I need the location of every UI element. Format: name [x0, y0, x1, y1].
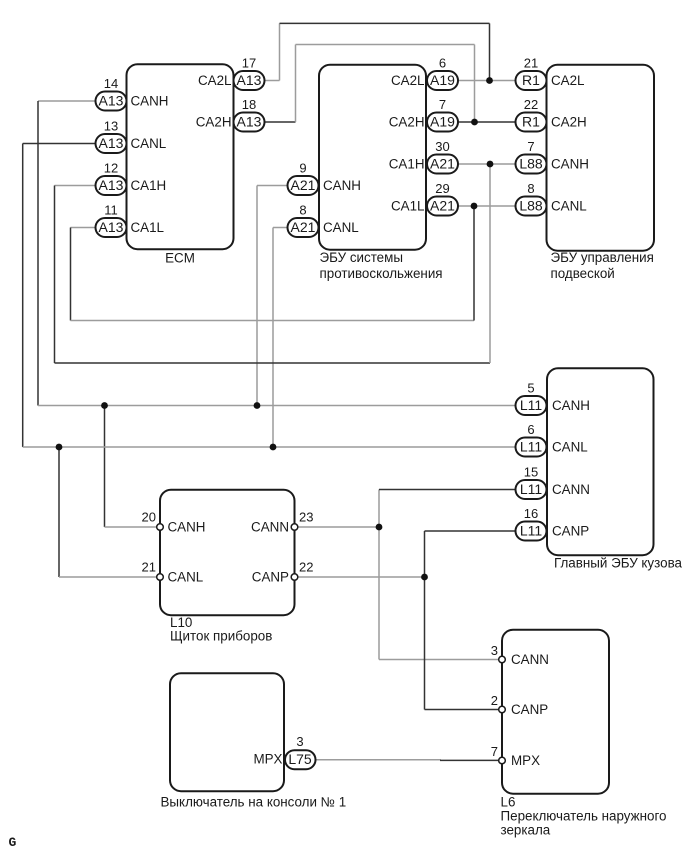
svg-text:L11: L11: [520, 397, 543, 413]
connector L75 pin3 console MPX: [285, 750, 316, 769]
connector A21 pin29 skid CA1L: [427, 197, 458, 216]
svg-text:CANN: CANN: [251, 520, 289, 535]
svg-text:противоскольжения: противоскольжения: [320, 266, 443, 281]
wire CA2L net: top horizontal run: [280, 22, 490, 24]
svg-text:A21: A21: [430, 198, 455, 214]
node junction CA2H row: [471, 119, 478, 126]
connector L11 pin5 body CANH: [516, 396, 547, 415]
svg-text:CANP: CANP: [252, 570, 289, 585]
node junction CA2L row: [486, 77, 493, 84]
connector A13 pin17 ECM CA2L: [234, 71, 265, 90]
svg-text:CANL: CANL: [168, 570, 204, 585]
wire CANL net: horizontal into L10 pin21: [59, 576, 160, 578]
wire CA1H net: lower horizontal run: [55, 362, 491, 364]
wire CA1L net: row skid pin29 to susp pin8: [458, 205, 516, 207]
instrument cluster L10 block: [160, 490, 295, 616]
suspension ECU block: [547, 65, 655, 251]
wire CA2L net: vertical up: [279, 23, 281, 80]
wire CANH net: horizontal into L10 pin20: [105, 526, 161, 528]
svg-text:2: 2: [491, 693, 498, 708]
wire CANP net: horizontal to body ECU pin16: [425, 530, 516, 532]
node junction CA1H row: [487, 161, 494, 168]
svg-text:Щиток приборов: Щиток приборов: [170, 629, 272, 644]
svg-text:18: 18: [242, 97, 256, 112]
svg-text:L11: L11: [520, 523, 543, 539]
node junction CANH/L10 branch: [101, 402, 108, 409]
node junction CANL/skid branch: [270, 444, 277, 451]
node junction CANH/skid branch: [254, 402, 261, 409]
connector A13 pin11 ECM CA1L: [96, 218, 127, 237]
svg-text:A19: A19: [430, 114, 455, 130]
svg-text:R1: R1: [522, 72, 540, 88]
pin circle L6 pin7 MPX: [499, 757, 506, 764]
wire CANN net: L10 pin23 to junction: [295, 526, 380, 528]
svg-text:CANH: CANH: [551, 157, 589, 172]
svg-text:L88: L88: [519, 198, 543, 214]
svg-text:CA1L: CA1L: [131, 220, 165, 235]
pin circle L10 pin20 CANH: [157, 524, 164, 531]
svg-text:CA1H: CA1H: [389, 157, 425, 172]
svg-text:8: 8: [299, 203, 306, 218]
connector L11 pin6 body CANL: [516, 438, 547, 457]
svg-text:21: 21: [142, 560, 156, 575]
wire CANN net: horizontal to L6 pin3: [379, 659, 502, 661]
svg-text:A13: A13: [237, 72, 262, 88]
svg-text:CANL: CANL: [552, 440, 588, 455]
connector A21 pin9 skid CANH: [288, 176, 319, 195]
svg-text:5: 5: [527, 381, 534, 396]
connector A19 pin7 skid CA2H: [427, 113, 458, 132]
svg-text:6: 6: [439, 56, 446, 71]
svg-text:7: 7: [491, 744, 498, 759]
node junction CANN: [376, 524, 383, 531]
svg-text:CANP: CANP: [511, 702, 548, 717]
svg-text:11: 11: [104, 203, 118, 218]
svg-text:CANP: CANP: [552, 524, 589, 539]
skid control ECU block: [319, 65, 426, 250]
svg-text:подвеской: подвеской: [551, 266, 615, 281]
connector L11 pin16 body CANP: [516, 522, 547, 541]
svg-text:Главный ЭБУ кузова: Главный ЭБУ кузова: [554, 556, 683, 571]
svg-text:22: 22: [299, 560, 313, 575]
wire CA2H net: row skid pin7 to susp pin22: [458, 121, 516, 123]
svg-text:зеркала: зеркала: [501, 823, 551, 838]
svg-text:A13: A13: [99, 219, 124, 235]
svg-text:L11: L11: [520, 481, 543, 497]
svg-text:CANL: CANL: [131, 136, 167, 151]
svg-text:3: 3: [296, 734, 303, 749]
svg-text:CANH: CANH: [131, 94, 169, 109]
svg-text:A13: A13: [99, 93, 124, 109]
svg-text:A21: A21: [430, 156, 455, 172]
svg-text:L6: L6: [501, 795, 516, 810]
wire CANL net: branch up to skid pin8: [272, 228, 274, 448]
wire MPX net: jog to L6 pin7: [440, 759, 502, 761]
wire CANH net: horizontal into skid pin9: [257, 185, 288, 187]
svg-text:A19: A19: [430, 72, 455, 88]
svg-text:30: 30: [435, 139, 449, 154]
svg-text:ЭБУ управления: ЭБУ управления: [551, 250, 654, 265]
wire CANH net: left vertical riser: [37, 101, 39, 406]
connector A13 pin13 ECM CANL: [96, 134, 127, 153]
connector L11 pin15 body CANN: [516, 480, 547, 499]
connector A21 pin8 skid CANL: [288, 218, 319, 237]
ECM block: [127, 64, 234, 249]
wire CANP net: L10 pin22 to junction: [295, 576, 425, 578]
connector L88 pin8 susp CANL: [516, 197, 547, 216]
svg-text:CANN: CANN: [552, 482, 590, 497]
wire CANN net: vertical trunk: [378, 490, 380, 660]
node junction CA1L row: [471, 203, 478, 210]
wire MPX net: L75 pin3 to jog: [316, 759, 441, 762]
wire CANH net: main horizontal bus to body ECU pin5: [38, 405, 516, 407]
svg-text:CANL: CANL: [551, 199, 587, 214]
node junction CANP: [421, 574, 428, 581]
svg-text:7: 7: [527, 139, 534, 154]
svg-text:CA1H: CA1H: [131, 178, 167, 193]
svg-text:14: 14: [104, 76, 118, 91]
wire CANH net: branch up to skid control pin9: [256, 186, 258, 406]
wire CA1L net: left vertical drop: [70, 228, 72, 321]
connector A19 pin6 skid CA2L: [427, 71, 458, 90]
main body ECU block: [547, 368, 654, 555]
svg-text:CA2H: CA2H: [389, 115, 425, 130]
wire CA2H net: top horizontal run: [296, 44, 475, 46]
svg-text:CA2L: CA2L: [198, 73, 232, 88]
svg-text:3: 3: [491, 643, 498, 658]
svg-text:20: 20: [142, 510, 156, 525]
wire CANH net: branch down to L10 pin20: [104, 406, 106, 528]
wire CA2H net: vertical up: [295, 45, 297, 123]
svg-text:G: G: [9, 835, 17, 850]
svg-text:6: 6: [527, 422, 534, 437]
svg-text:L75: L75: [288, 751, 312, 767]
wire CANL net: ECM pin13 stub: [23, 143, 96, 145]
connector R1 pin22 susp CA2H: [516, 113, 547, 132]
svg-text:A13: A13: [99, 177, 124, 193]
svg-text:CANN: CANN: [511, 652, 549, 667]
svg-text:12: 12: [104, 161, 118, 176]
svg-text:23: 23: [299, 510, 313, 525]
svg-text:CA2H: CA2H: [196, 115, 232, 130]
wire CA1H net: vertical up to row: [489, 164, 491, 363]
wire CANH net: ECM pin14 stub: [38, 100, 96, 102]
wire CA1L net: lower horizontal run: [71, 320, 475, 322]
svg-text:CANL: CANL: [323, 220, 359, 235]
wire CA1L net: vertical up to row: [473, 206, 475, 321]
svg-text:ЭБУ системы: ЭБУ системы: [320, 250, 403, 265]
wire CANP net: horizontal to L6 pin2: [425, 709, 503, 711]
svg-text:7: 7: [439, 97, 446, 112]
svg-text:MPX: MPX: [511, 753, 540, 768]
pin circle L10 pin22 CANP: [291, 574, 298, 581]
wire CANL net: main horizontal bus to body ECU pin6: [23, 446, 516, 448]
pin circle L10 pin21 CANL: [157, 574, 164, 581]
svg-text:CANH: CANH: [323, 178, 361, 193]
svg-text:13: 13: [104, 119, 118, 134]
connector A13 pin12 ECM CA1H: [96, 176, 127, 195]
svg-text:21: 21: [524, 56, 538, 71]
svg-text:22: 22: [524, 97, 538, 112]
wire CA1L net: ECM pin11 stub: [71, 227, 96, 229]
wire CA2H net: ECM pin18 stub: [265, 121, 296, 123]
wire CA1H net: left vertical drop: [54, 186, 56, 364]
svg-text:CA1L: CA1L: [391, 199, 425, 214]
svg-text:CANH: CANH: [168, 520, 206, 535]
wire CANL net: left vertical riser: [22, 144, 24, 448]
svg-text:17: 17: [242, 56, 256, 71]
svg-text:29: 29: [435, 181, 449, 196]
svg-text:A21: A21: [291, 219, 316, 235]
svg-text:8: 8: [527, 181, 534, 196]
connector A13 pin14 ECM CANH: [96, 92, 127, 111]
wire CA1H net: row skid pin30 to susp pin7: [458, 163, 516, 165]
svg-text:16: 16: [524, 506, 538, 521]
wire CA2L net: ECM pin17 stub: [265, 80, 280, 82]
wire CA1H net: ECM pin12 stub: [55, 185, 96, 187]
svg-text:Выключатель на консоли № 1: Выключатель на консоли № 1: [161, 795, 347, 810]
mirror switch L6 block: [502, 630, 609, 794]
wire CANP net: vertical trunk: [424, 531, 426, 710]
svg-text:ECM: ECM: [165, 251, 195, 266]
wire CA2L net: vertical down to row: [489, 23, 491, 80]
svg-text:L88: L88: [519, 156, 543, 172]
svg-text:A13: A13: [99, 135, 124, 151]
connector A13 pin18 ECM CA2H: [234, 113, 265, 132]
connector A21 pin30 skid CA1H: [427, 155, 458, 174]
svg-text:CA2H: CA2H: [551, 115, 587, 130]
pin circle L10 pin23 CANN: [291, 524, 298, 531]
pin circle L6 pin2 CANP: [499, 706, 506, 713]
wire CANL net: branch down to L10 pin21: [58, 447, 60, 577]
svg-text:A21: A21: [291, 177, 316, 193]
svg-text:R1: R1: [522, 114, 540, 130]
svg-text:CA2L: CA2L: [551, 73, 585, 88]
node junction CANL/L10 branch: [56, 444, 63, 451]
connector R1 pin21 susp CA2L: [516, 71, 547, 90]
wire CA2L net: row skid pin6 to susp pin21: [458, 80, 516, 82]
svg-text:MPX: MPX: [253, 752, 282, 767]
svg-text:CA2L: CA2L: [391, 73, 425, 88]
wire CANL net: horizontal into skid pin8: [273, 227, 288, 229]
wire CA2H net: vertical down to row: [474, 45, 476, 123]
svg-text:A13: A13: [237, 114, 262, 130]
pin circle L6 pin3 CANN: [499, 656, 506, 663]
wire CANN net: horizontal to body ECU pin15: [379, 489, 516, 491]
svg-text:9: 9: [299, 161, 306, 176]
svg-text:L11: L11: [520, 439, 543, 455]
svg-text:15: 15: [524, 465, 538, 480]
console switch block: [170, 673, 284, 791]
svg-text:CANH: CANH: [552, 398, 590, 413]
svg-text:Переключатель наружного: Переключатель наружного: [501, 809, 667, 824]
connector L88 pin7 susp CANH: [516, 155, 547, 174]
